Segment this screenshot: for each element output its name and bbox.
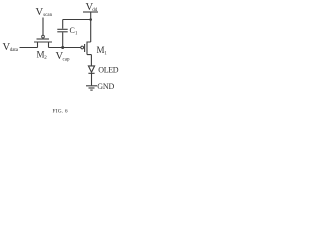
svg-text:FIG. 6: FIG. 6 [53,109,68,115]
svg-text:2: 2 [44,56,47,61]
svg-text:cap: cap [63,58,70,63]
svg-text:data: data [10,48,19,53]
svg-text:OLED: OLED [98,66,119,75]
svg-text:1: 1 [75,32,78,37]
svg-text:dd: dd [92,8,98,13]
svg-text:1: 1 [104,51,107,56]
svg-text:GND: GND [97,82,114,91]
svg-text:scan: scan [43,13,52,18]
